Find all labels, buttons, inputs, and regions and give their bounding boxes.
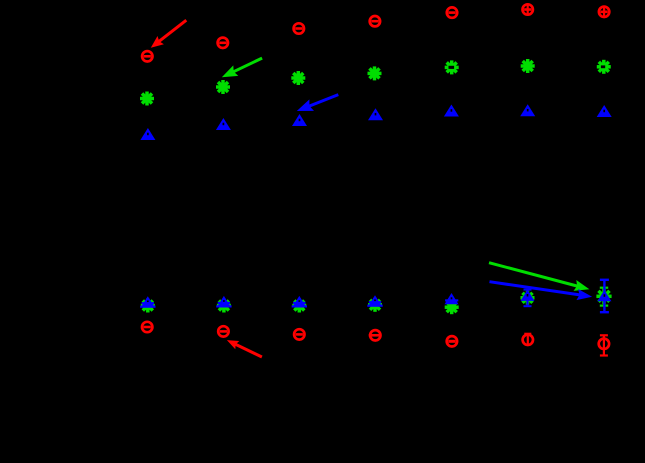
data point: blue filled triangle, lower series, col 4 — [368, 108, 383, 120]
cluster: green asterisk + blue triangle with vertical error bar, bottom, col 6 — [521, 290, 535, 307]
data point: green asterisk with error-bar gap, middle series, col 5 — [445, 60, 459, 74]
data point: red open circle, bottom series, col 4 — [369, 330, 381, 340]
cluster: green asterisk + blue triangle with error caps, bottom, col 5 — [445, 293, 459, 314]
data point: red open circle, bottom series, col 1 — [142, 322, 152, 332]
data point: red open circle, top series, col 1 — [142, 51, 152, 61]
data point: red open circle, bottom series, col 2 — [218, 326, 228, 336]
arrow: green annotation pointing to bottom cluster col 7 — [489, 263, 589, 291]
data point: blue filled triangle, lower series, col 1 — [140, 128, 155, 140]
arrow: blue annotation pointing to bottom cluster col 7 — [490, 282, 593, 300]
data point: blue filled triangle, lower series, col 5 — [444, 105, 459, 117]
data point: blue filled triangle, lower series, col 2 — [216, 118, 231, 130]
data point: green asterisk, middle series, col 3 — [291, 71, 305, 85]
data point: green asterisk, middle series, col 2 — [216, 80, 230, 94]
cluster: green asterisk + blue triangle with large error bars, bottom, col 7 — [596, 279, 611, 312]
arrow: green annotation pointing to green asterisk col 2 — [222, 58, 262, 77]
data point: red open circle, top series, col 7 — [599, 6, 609, 17]
cluster: green asterisk + blue triangle with error caps, bottom, col 4 — [367, 295, 382, 312]
data point: red open circle, bottom series, col 5 — [447, 336, 457, 346]
data point: blue filled triangle, lower series, col 6 — [520, 104, 535, 116]
data point: green asterisk, middle series, col 6 — [521, 59, 535, 73]
arrow: red annotation pointing to top red circle col 1 — [151, 20, 187, 48]
cluster: green asterisk + blue triangle with error caps, bottom, col 2 — [216, 296, 231, 313]
data point: blue filled triangle, lower series, col 7 — [597, 105, 612, 117]
data point: blue filled triangle, lower series, col 3 — [292, 114, 307, 126]
data point: red open circle, top series, col 3 — [294, 23, 304, 33]
arrow: red annotation pointing to bottom red circle col 2 — [227, 340, 262, 357]
cluster: green asterisk + blue triangle with error caps, bottom, col 3 — [292, 296, 307, 313]
data point: red open circle with error bar, bottom series, col 7 — [599, 335, 609, 356]
data point: red open circle, top series, col 6 — [523, 4, 533, 15]
data point: green asterisk with error-bar gap, middle series, col 7 — [597, 60, 611, 74]
data point: green asterisk, middle series, col 1 — [140, 92, 154, 106]
cluster: green asterisk + blue triangle with error caps, bottom, col 1 — [140, 296, 155, 312]
data point: red open circle, top series, col 2 — [218, 38, 228, 48]
arrow: blue annotation pointing to blue triangle col 3 — [297, 95, 339, 111]
data point: green asterisk, middle series, col 4 — [368, 66, 382, 80]
data point: red open circle, top series, col 4 — [370, 16, 380, 26]
data point: red open circle, top series, col 5 — [447, 7, 457, 17]
data point: red open circle, bottom series, col 3 — [294, 329, 304, 339]
data point: red open circle with error bar, bottom series, col 6 — [523, 333, 533, 345]
